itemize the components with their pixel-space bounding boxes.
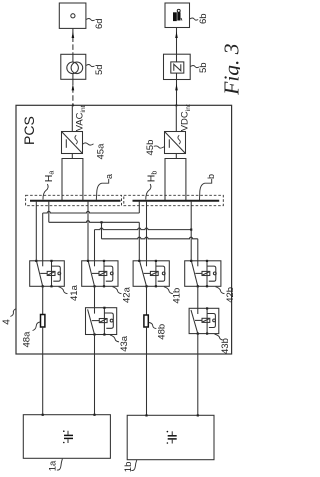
downcomer 45a to busbar a	[71, 154, 73, 159]
dashed section box a	[26, 195, 122, 205]
R2 feeder down to 41b terminal A	[138, 222, 140, 260]
wire 5d-PCS dashed	[72, 79, 74, 105]
svg-text:Fig. 3: Fig. 3	[219, 43, 240, 95]
converter 45a	[62, 132, 83, 154]
fuse 48b	[144, 315, 148, 327]
label 5d	[86, 65, 95, 67]
svg-text:45b: 45b	[145, 140, 156, 156]
arrowhead up	[72, 31, 75, 38]
switch 42b	[185, 260, 221, 288]
wire 43b to battery 1b	[197, 334, 199, 416]
battery symbol 1b	[167, 431, 177, 444]
label 43b	[215, 334, 224, 340]
svg-text:5d: 5d	[94, 64, 105, 75]
vertical R2 to R4	[101, 222, 103, 239]
svg-text:5b: 5b	[198, 62, 209, 73]
junction R2-R4	[100, 221, 102, 223]
arrowhead up	[175, 84, 178, 91]
dashed section box b	[124, 195, 224, 205]
svg-text:a: a	[104, 174, 114, 179]
zigzag in 5b	[174, 64, 181, 71]
battery icon in 6b	[173, 9, 182, 20]
battery unit 6b	[165, 3, 190, 28]
run R2 (bus a to 41b terminal A) with hop	[49, 221, 140, 223]
drop busbar a to 42a terminal A	[87, 201, 89, 261]
meter 6d	[59, 3, 86, 28]
svg-text:PCS: PCS	[21, 116, 37, 145]
wire 43a to battery 1a	[94, 335, 96, 415]
node battery 1b right	[197, 414, 199, 416]
wire 42b to 43b	[197, 286, 199, 308]
R4 corner down to 42b stub B	[197, 239, 199, 261]
svg-text:41b: 41b	[172, 288, 183, 304]
svg-text:43a: 43a	[119, 335, 130, 352]
run R1 (bus b to 41a stub) with hops	[43, 211, 140, 213]
label 41b	[164, 287, 173, 294]
R1 corner up to busbar b	[138, 201, 140, 213]
label 48a	[33, 322, 40, 331]
label 41a	[59, 287, 68, 294]
label 4 with leader	[10, 309, 16, 317]
svg-text:1b: 1b	[123, 462, 134, 473]
wire 41b to fuse 48b	[146, 286, 148, 315]
svg-text:1a: 1a	[48, 460, 59, 471]
wire 6b-5b	[176, 28, 178, 54]
drop busbar a to 41a terminal A	[35, 201, 37, 261]
svg-text:43b: 43b	[220, 338, 231, 354]
label 1a	[57, 459, 63, 470]
leader b	[200, 179, 212, 200]
switch 41a	[30, 260, 65, 288]
leader Hb	[146, 184, 151, 200]
svg-text:4: 4	[2, 319, 13, 325]
svg-text:42b: 42b	[225, 287, 236, 303]
leader Ha	[43, 184, 48, 200]
node battery 1b left	[145, 414, 147, 416]
wire PCS top to 45b	[175, 105, 177, 131]
R3 corner down to 42a stub B	[94, 230, 96, 261]
busbar b	[133, 200, 220, 202]
switch 42a	[82, 260, 118, 288]
battery system 1b	[127, 415, 214, 459]
wire 6d-5d dashed	[72, 29, 74, 55]
wire fuse 48b to battery 1b	[146, 327, 148, 415]
wire 5b-PCS	[176, 80, 178, 106]
node battery 1a left	[42, 414, 44, 416]
switch 41b	[133, 260, 169, 288]
wire 41a to fuse 48a	[42, 286, 44, 314]
PCS enclosure box	[16, 105, 232, 354]
wire fuse 48a to battery 1a	[42, 327, 44, 415]
battery symbol 1a	[63, 430, 73, 443]
fuse 48a	[41, 315, 45, 328]
svg-text:48a: 48a	[21, 331, 32, 348]
arrowhead up	[72, 84, 75, 91]
svg-text:45a: 45a	[96, 143, 107, 160]
label 43a	[110, 335, 119, 342]
svg-text:48b: 48b	[156, 324, 167, 340]
downcomer 45b to busbar b	[175, 154, 177, 159]
converter 45b	[165, 132, 186, 154]
label 1b	[131, 460, 137, 471]
switch 43b	[189, 307, 219, 334]
label 42a	[113, 287, 122, 294]
svg-text:6b: 6b	[198, 13, 209, 24]
converter unit 5b	[164, 54, 191, 79]
label 48b	[149, 323, 156, 329]
svg-text:41a: 41a	[69, 284, 80, 301]
svg-text:b: b	[206, 174, 216, 179]
svg-text:6d: 6d	[94, 18, 105, 29]
wire 42a to 43a	[94, 286, 96, 307]
drop busbar a to R2	[48, 201, 50, 222]
battery system 1a	[23, 415, 110, 459]
leader a	[96, 179, 108, 200]
label 45b	[154, 146, 164, 148]
drop busbar b to 42b terminal A	[190, 201, 192, 261]
junction R3 on drop	[190, 229, 192, 231]
drop busbar b to 41b stub B	[146, 201, 148, 261]
arrowhead up	[175, 31, 178, 38]
run R3 (42a stub to bus b drop) with hops	[95, 228, 192, 230]
node at PCS top left wire	[72, 104, 74, 106]
run R4 (R2 branch to 42b stub) with hops	[102, 237, 198, 239]
switch 43a	[86, 307, 117, 336]
label 6d	[86, 19, 95, 21]
label 5b	[191, 66, 200, 68]
label 42b	[216, 287, 225, 294]
svg-text:42a: 42a	[122, 286, 133, 303]
node battery 1a right	[93, 414, 95, 416]
node at PCS top right wire	[175, 104, 177, 106]
R1 corner down to 41a stub B	[42, 213, 44, 261]
busbar a	[30, 200, 121, 202]
wire PCS top to 45a	[71, 105, 73, 131]
label 6b	[190, 18, 199, 20]
transformer 5d	[61, 54, 86, 79]
label 45a	[83, 143, 94, 145]
